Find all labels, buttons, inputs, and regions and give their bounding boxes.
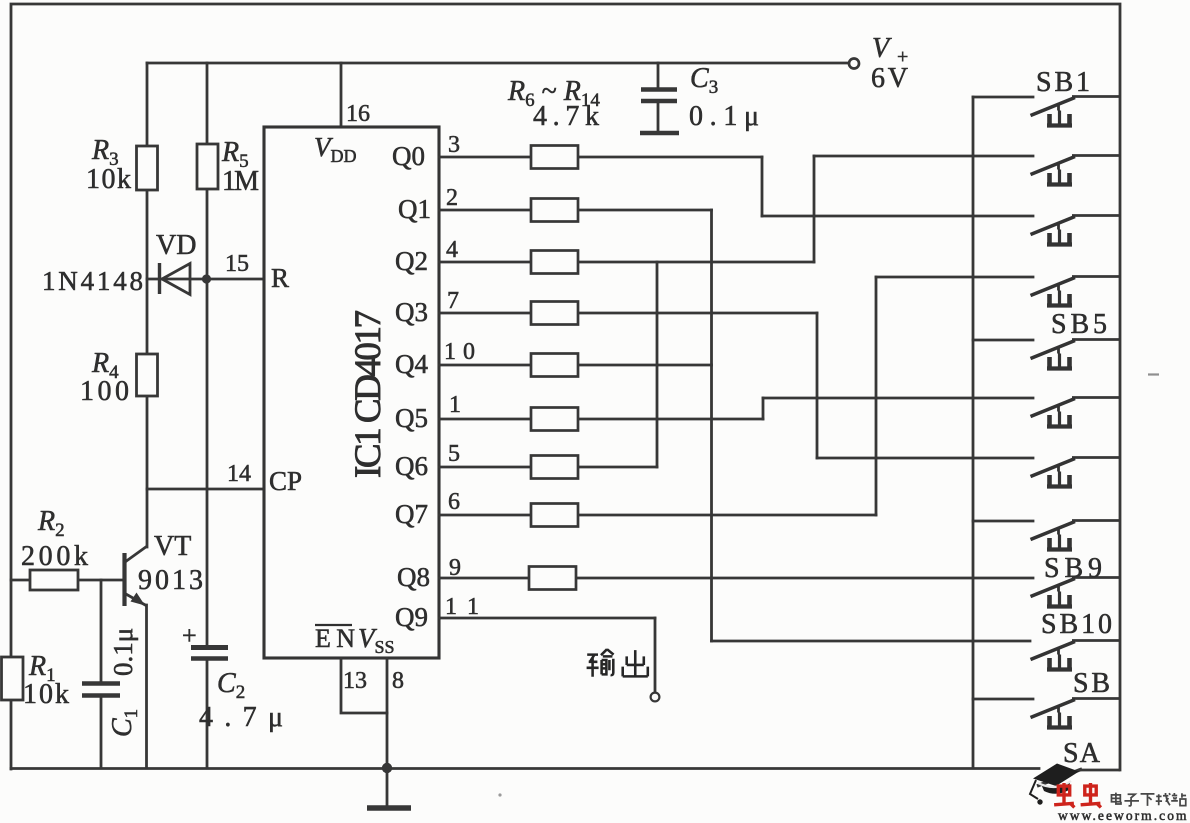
svg-text:SB5: SB5 bbox=[1051, 309, 1107, 340]
switch SB4 bbox=[1031, 277, 1121, 306]
svg-text:R: R bbox=[271, 263, 289, 293]
node: output terminal circle bbox=[651, 693, 660, 702]
svg-text:SB1: SB1 bbox=[1036, 67, 1090, 98]
capacitor C3 bottom end bar bbox=[640, 131, 679, 136]
svg-text:14: 14 bbox=[227, 461, 251, 487]
diode VD 1N4148 cathode bar bbox=[158, 263, 161, 294]
wire: bus stub switch row 1 bbox=[973, 96, 1033, 99]
ground symbol bbox=[386, 768, 389, 806]
wire: Q5 feed to switch row 6 bbox=[763, 397, 1033, 400]
wire: Q5 jog up bbox=[762, 398, 765, 419]
svg-text:VD: VD bbox=[156, 230, 196, 261]
svg-text:CP: CP bbox=[269, 466, 302, 496]
wire: R2 from left border bbox=[11, 579, 30, 582]
wire: Q7 rise vertical bbox=[875, 277, 878, 515]
wire: Q3 feed to switch row 7 bbox=[817, 457, 1033, 460]
resistor R6 body bbox=[531, 146, 578, 169]
wire: Q7 feed to switch row 4 bbox=[876, 276, 1033, 279]
transistor VT base bar bbox=[122, 553, 126, 606]
resistor R3 body bbox=[137, 146, 158, 190]
wire: Q6 pin 5 stub bbox=[439, 466, 531, 469]
watermark dianzi xiazaizhan bbox=[1111, 793, 1186, 806]
switch SB2 bbox=[1031, 156, 1121, 185]
svg-text:SB10: SB10 bbox=[1041, 609, 1112, 640]
wire: Q0 drop vertical bbox=[761, 157, 764, 216]
svg-text:5: 5 bbox=[448, 441, 460, 467]
node: V+ terminal bbox=[849, 59, 859, 69]
wire: Q2 run bbox=[577, 261, 814, 264]
wire: right switch bus bbox=[972, 97, 975, 768]
wire: Q7 pin 6 stub bbox=[439, 514, 531, 517]
wire: Q9 drop to output terminal bbox=[654, 618, 657, 692]
svg-text:www.eeworm.com: www.eeworm.com bbox=[1058, 808, 1188, 823]
wire: Q4 pin 10 stub bbox=[439, 364, 531, 367]
resistor R7 body bbox=[531, 199, 578, 222]
wire: rail down through R5 to C2 bbox=[206, 63, 209, 145]
wire: feed to switch row 10 bbox=[712, 640, 1031, 643]
op IC1 CD4017 box bbox=[264, 127, 439, 658]
wire: CP horizontal to IC pin 14 bbox=[147, 488, 264, 491]
svg-text:16: 16 bbox=[346, 101, 370, 127]
wire: Q6 run bbox=[577, 466, 657, 469]
svg-text:6: 6 bbox=[448, 489, 460, 515]
svg-text:Q3: Q3 bbox=[395, 297, 428, 327]
switch SA bbox=[1037, 769, 1120, 786]
wire: Q6 rise vertical to Q2 run bbox=[656, 262, 659, 467]
resistor R13 body bbox=[531, 504, 578, 527]
svg-text:1: 1 bbox=[449, 392, 461, 418]
svg-text:Q5: Q5 bbox=[395, 403, 428, 433]
wire: bottom ground rail bbox=[11, 767, 1039, 770]
wire: Q3 drop vertical bbox=[816, 313, 819, 458]
resistor R8 body bbox=[531, 251, 578, 274]
wire: Q1 pin 2 stub bbox=[439, 209, 531, 212]
wire: pin 16 stub from rail to IC top bbox=[340, 63, 343, 127]
switch SB5 bbox=[1031, 340, 1121, 369]
wire: Q3 pin 7 stub bbox=[439, 312, 531, 315]
wire: Q3 run bbox=[577, 312, 817, 315]
resistor R12 body bbox=[531, 456, 578, 479]
switch SB bbox=[1031, 699, 1121, 728]
junction dot: diode / R5 / pin15 node bbox=[202, 274, 211, 283]
svg-text:15: 15 bbox=[225, 251, 249, 277]
wire: Q7 run bbox=[577, 514, 876, 517]
scan speck dot bottom bbox=[498, 793, 501, 796]
svg-text:SB: SB bbox=[1073, 668, 1110, 699]
svg-text:+: + bbox=[182, 621, 197, 650]
wire: diode row pin 15 to IC bbox=[147, 278, 264, 281]
wire: Q4 run to tee bbox=[577, 364, 712, 367]
svg-text:0.1μ: 0.1μ bbox=[108, 628, 138, 676]
resistor R11 body bbox=[531, 408, 578, 431]
svg-text:Q1: Q1 bbox=[398, 194, 431, 224]
wire: bus stub switch row 8 bbox=[973, 520, 1033, 523]
wire: Q2 rise vertical bbox=[813, 156, 816, 262]
svg-text:8: 8 bbox=[392, 668, 404, 694]
wire: EN pin 13 stub bbox=[341, 658, 387, 713]
wire: Q0 feed to switch row 3 bbox=[762, 215, 1033, 218]
wire: Q8 feed to switch row 9 bbox=[575, 577, 1033, 580]
svg-text:V: V bbox=[872, 33, 892, 64]
transistor VT collector lead bbox=[125, 547, 147, 563]
resistor R9 body bbox=[531, 302, 578, 325]
switch SB7 bbox=[1031, 458, 1121, 487]
watermark graduation cap bbox=[1030, 764, 1079, 805]
switch SB9 bbox=[1031, 578, 1121, 607]
svg-text:6V: 6V bbox=[871, 63, 908, 94]
svg-text:0.1μ: 0.1μ bbox=[689, 101, 759, 132]
resistor R2 body bbox=[30, 570, 78, 590]
diode VD triangle bbox=[162, 264, 190, 295]
svg-text:IC1 CD4017: IC1 CD4017 bbox=[348, 310, 389, 478]
capacitor C1 plates bbox=[82, 681, 120, 685]
wire: bus stub switch row 5 bbox=[973, 339, 1033, 342]
switch SB3 bbox=[1031, 216, 1121, 245]
wire: V+ supply rail bbox=[147, 62, 851, 65]
wire: Q5 run bbox=[577, 418, 763, 421]
watermark chongchong (red) bbox=[1054, 783, 1101, 807]
svg-text:4: 4 bbox=[446, 237, 458, 263]
wire: Q1 long vertical bbox=[710, 210, 713, 641]
svg-text:7: 7 bbox=[447, 288, 459, 314]
wire: Q0 pin 3 stub bbox=[439, 156, 531, 159]
wire: Q2 feed to switch row 2 bbox=[814, 155, 1033, 158]
resistor R10 body bbox=[531, 354, 578, 377]
wire: C2 bottom to ground rail bbox=[206, 660, 209, 768]
wire: R4 bottom down to collector (CP tap) bbox=[146, 395, 149, 547]
capacitor C3 plates bbox=[641, 87, 677, 92]
svg-text:SA: SA bbox=[1063, 738, 1101, 769]
wire: Q8 pin 9 stub bbox=[439, 577, 529, 580]
svg-text:100: 100 bbox=[80, 376, 129, 407]
wire: Q1 run bbox=[577, 209, 712, 212]
svg-text:Q0: Q0 bbox=[392, 141, 425, 171]
wire: rail down to R3 bbox=[146, 63, 149, 146]
svg-text:13: 13 bbox=[343, 668, 367, 694]
svg-text:Q9: Q9 bbox=[395, 602, 428, 632]
resistor R14 body bbox=[529, 567, 576, 590]
switch SB10 bbox=[1031, 641, 1121, 670]
label shuchu (output) bbox=[587, 649, 648, 677]
svg-text:3: 3 bbox=[448, 132, 460, 158]
wire: Q2 pin 4 stub bbox=[439, 261, 531, 264]
resistor R1 body bbox=[2, 657, 24, 700]
wire: C3 bottom lead bbox=[657, 102, 660, 131]
wire: Q9 pin 11 run bbox=[439, 617, 655, 620]
svg-text:SB9: SB9 bbox=[1044, 553, 1102, 584]
wire: C1 top lead from base wire bbox=[100, 580, 103, 682]
transistor VT emitter lead bbox=[125, 594, 147, 607]
wire: C3 top lead bbox=[657, 63, 660, 88]
wire: C1 bottom lead to rail bbox=[100, 697, 103, 768]
wire: VSS pin 8 down to rail bbox=[386, 658, 389, 768]
svg-text:9: 9 bbox=[449, 555, 461, 581]
svg-text:Q7: Q7 bbox=[395, 499, 428, 529]
switch SB8 bbox=[1031, 521, 1121, 550]
svg-text:Q6: Q6 bbox=[395, 451, 428, 481]
svg-text:Q4: Q4 bbox=[395, 349, 428, 379]
transistor VT emitter arrow bbox=[131, 593, 146, 606]
junction dot: VSS / ground rail bbox=[382, 763, 392, 773]
capacitor C2 plates bbox=[191, 645, 228, 650]
switch SB6 bbox=[1031, 398, 1121, 427]
wire: R3 bottom to R4 top (through diode tap) bbox=[146, 189, 149, 354]
resistor R4 body bbox=[137, 354, 158, 396]
svg-text:Q8: Q8 bbox=[397, 562, 430, 592]
switch SB1 bbox=[1031, 97, 1121, 126]
svg-text:4.7k: 4.7k bbox=[533, 101, 599, 132]
svg-text:1M: 1M bbox=[222, 166, 259, 197]
resistor R5 body bbox=[197, 144, 218, 189]
wire: Q0 run to drop bbox=[577, 156, 762, 159]
wire: bus stub switch row 11 bbox=[973, 698, 1033, 701]
wire: emitter down to ground rail bbox=[145, 605, 148, 768]
wire: R2 to transistor base bbox=[78, 579, 123, 582]
scan speck dash right bbox=[1148, 373, 1159, 375]
svg-text:VT: VT bbox=[154, 531, 191, 562]
svg-text:10k: 10k bbox=[23, 679, 69, 710]
svg-text:10k: 10k bbox=[86, 164, 131, 195]
svg-text:2: 2 bbox=[446, 185, 458, 211]
svg-text:Q2: Q2 bbox=[395, 246, 428, 276]
wire: Q5 pin 1 stub bbox=[439, 418, 531, 421]
